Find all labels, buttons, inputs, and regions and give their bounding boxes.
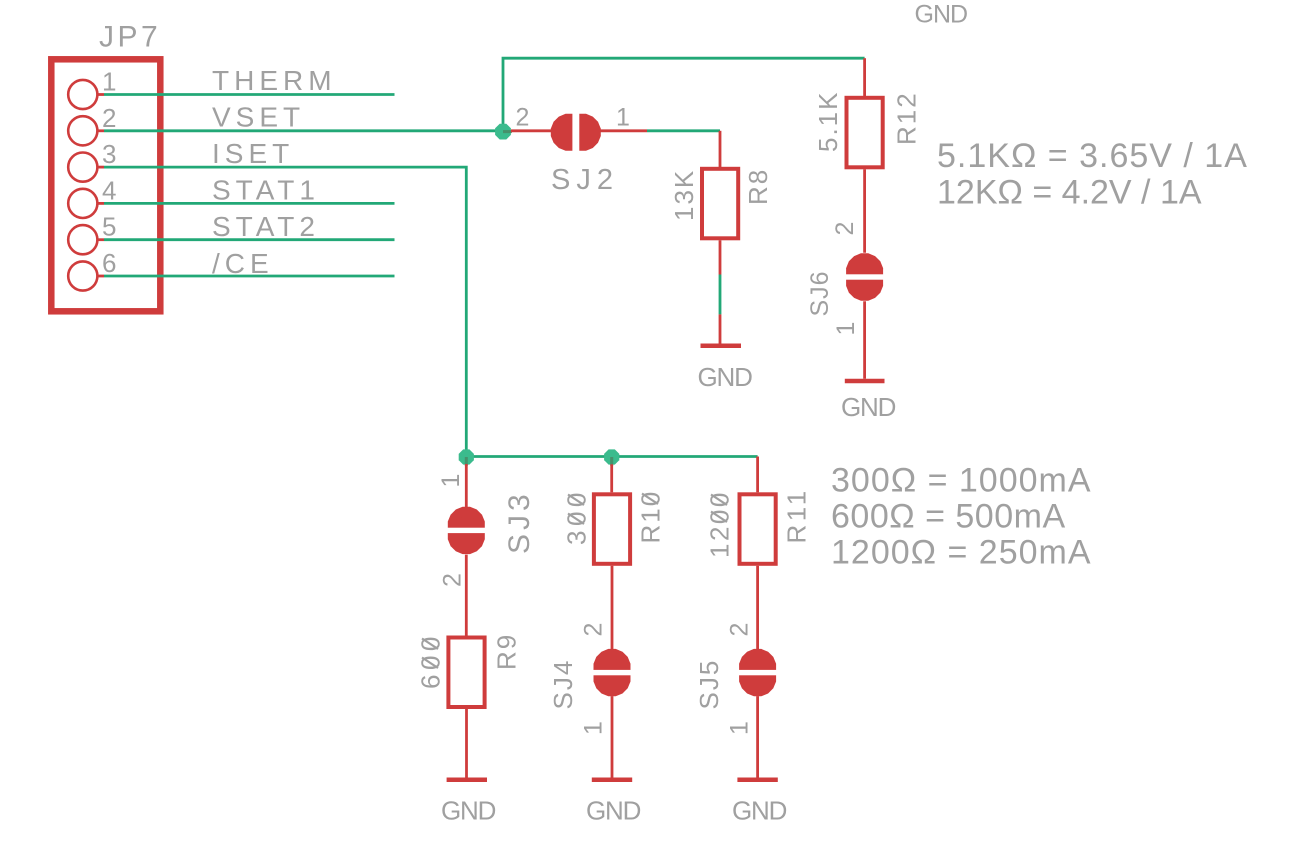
svg-text:12KΩ = 4.2V / 1A: 12KΩ = 4.2V / 1A (937, 174, 1202, 212)
resistor R9 (448, 638, 484, 778)
ground symbol R8 (701, 314, 742, 345)
svg-text:1: 1 (580, 721, 608, 735)
svg-text:R9: R9 (492, 633, 522, 670)
resistor R8 (702, 131, 738, 275)
ground symbol SJ6 (845, 379, 885, 384)
SJ6 pin 2 label (831, 222, 859, 236)
ground symbol SJ5 (737, 778, 777, 783)
SJ2 pin 1 stub (598, 129, 647, 132)
svg-text:1200Ω = 250mA: 1200Ω = 250mA (831, 534, 1092, 572)
wire SJ6 to GND (863, 301, 866, 379)
wire STAT2 (104, 238, 395, 241)
svg-text:SJ2: SJ2 (551, 164, 619, 196)
svg-text:JP7: JP7 (99, 21, 161, 54)
svg-text:2: 2 (516, 104, 530, 132)
resistor R12 (847, 58, 883, 253)
svg-text:SJ4: SJ4 (548, 659, 578, 710)
svg-text:1: 1 (437, 474, 465, 488)
ground symbol SJ4 (592, 778, 632, 783)
svg-text:300: 300 (562, 488, 592, 545)
wire VSET (104, 129, 503, 132)
svg-text:THERM: THERM (212, 65, 337, 96)
SJ6 pin 1 label (832, 322, 860, 336)
label SJ4 (548, 659, 578, 710)
svg-text:2: 2 (726, 623, 754, 637)
svg-text:GND: GND (732, 796, 787, 826)
wire R8 to GND (719, 275, 722, 315)
SJ5 pin 2 label (726, 623, 754, 637)
JP7 pin 3 (68, 153, 104, 182)
svg-text:R11: R11 (782, 487, 812, 543)
svg-text:5.1KΩ = 3.65V / 1A: 5.1KΩ = 3.65V / 1A (937, 137, 1248, 175)
R10 pin stub (610, 464, 613, 492)
wire ISET (104, 167, 466, 456)
wire SJ3 to R9 (465, 555, 468, 636)
wire SJ5 to GND (756, 696, 759, 777)
JP7 pin 5 (68, 225, 104, 254)
svg-text:2: 2 (831, 222, 859, 236)
ground symbol R9 (447, 778, 487, 783)
R12 refdes (892, 91, 922, 145)
label SJ3 (503, 490, 536, 554)
svg-text:6: 6 (102, 248, 116, 278)
svg-text:STAT1: STAT1 (212, 175, 320, 206)
SJ3 pin 1 label (437, 474, 465, 488)
junction node R10 (604, 449, 619, 464)
junction VSET node (495, 124, 511, 140)
resistor R11 (740, 494, 776, 649)
svg-text:ISET: ISET (212, 138, 294, 169)
resistor R10 (594, 494, 630, 649)
svg-text:5.1K: 5.1K (813, 91, 843, 153)
label SJ5 (694, 659, 724, 710)
svg-text:1: 1 (102, 67, 116, 97)
SJ2 pin 2 stub (511, 129, 553, 132)
label SJ6 (806, 270, 834, 316)
SJ3 pin 1 stub (465, 464, 468, 508)
R11 value 1200 (705, 490, 735, 558)
svg-text:STAT2: STAT2 (212, 211, 320, 242)
annotation text R12 values (937, 137, 1248, 212)
svg-text:2: 2 (580, 623, 608, 637)
SJ3 pin 2 label (438, 573, 466, 587)
wire ISET bus lower (466, 455, 757, 458)
R8 value 13K (669, 169, 699, 221)
JP7 pin 6 (68, 261, 104, 290)
R10 value 300 (562, 488, 592, 545)
wire /CE (104, 275, 395, 278)
R12 value 5.1K (813, 91, 843, 153)
solder jumper SJ2 (551, 112, 601, 153)
JP7 pin 1 (68, 80, 104, 109)
annotation text current set values (831, 462, 1092, 572)
R11 pin stub (756, 457, 759, 493)
svg-text:R12: R12 (892, 91, 922, 145)
wire STAT1 (104, 202, 395, 205)
solder jumper SJ6 (845, 253, 885, 300)
svg-text:2: 2 (438, 573, 466, 587)
svg-text:13K: 13K (669, 169, 699, 221)
svg-text:4: 4 (102, 175, 116, 205)
svg-text:VSET: VSET (212, 101, 305, 132)
svg-text:3: 3 (102, 139, 116, 169)
R9 value 600 (416, 632, 446, 689)
SJ4 pin 1 label (580, 721, 608, 735)
svg-text:1: 1 (616, 104, 630, 132)
wire THERM (104, 93, 395, 96)
svg-text:600: 600 (416, 632, 446, 689)
R10 refdes (636, 490, 666, 544)
svg-text:1: 1 (832, 322, 860, 336)
svg-text:2: 2 (102, 103, 116, 133)
svg-text:5: 5 (102, 212, 116, 242)
wire GND net top (503, 58, 865, 131)
svg-text:1: 1 (726, 721, 754, 735)
svg-text:/CE: /CE (212, 248, 274, 279)
svg-text:GND: GND (586, 796, 641, 826)
solder jumper SJ3 (446, 507, 486, 554)
SJ5 pin 1 label (726, 721, 754, 735)
svg-text:SJ5: SJ5 (694, 659, 724, 710)
svg-text:SJ3: SJ3 (503, 490, 536, 554)
svg-text:R8: R8 (743, 168, 773, 205)
solder jumper SJ4 (592, 649, 632, 696)
wire SJ2 to R8 (647, 129, 720, 132)
R9 refdes (492, 633, 522, 670)
svg-text:GND: GND (841, 392, 896, 422)
svg-text:GND: GND (441, 796, 496, 826)
JP7 pin 2 (68, 116, 104, 145)
svg-text:600Ω = 500mA: 600Ω = 500mA (831, 498, 1066, 536)
JP7 pin 4 (68, 189, 104, 218)
svg-text:GND: GND (915, 0, 968, 28)
R8 refdes (743, 168, 773, 205)
svg-text:GND: GND (698, 362, 753, 392)
solder jumper SJ5 (738, 649, 778, 696)
junction node SJ3 (459, 449, 474, 464)
svg-text:SJ6: SJ6 (806, 270, 834, 316)
wire SJ4 to GND (611, 696, 614, 777)
connector JP7 frame (51, 59, 160, 311)
SJ4 pin 2 label (580, 623, 608, 637)
svg-text:300Ω = 1000mA: 300Ω = 1000mA (831, 462, 1092, 500)
R11 refdes (782, 487, 812, 543)
